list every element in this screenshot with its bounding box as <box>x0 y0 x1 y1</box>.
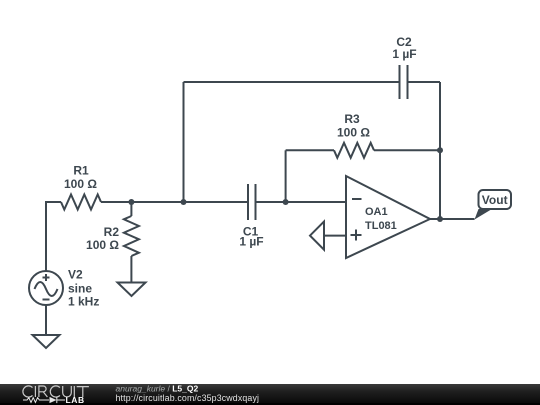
svg-text:100 Ω: 100 Ω <box>86 238 119 252</box>
wire: left branch horizontal from source top corner to R1 <box>46 202 61 271</box>
resistor R3 <box>334 143 374 158</box>
wire: C1 right plate to op-amp inverting input <box>256 201 347 203</box>
node: C2 branch junction <box>181 199 187 205</box>
wire: top feedback horizontal to C2 <box>184 81 400 83</box>
svg-text:LAB: LAB <box>66 395 85 405</box>
wire: R3 branch left vertical <box>285 150 287 202</box>
capacitor C1 <box>248 184 256 220</box>
wire: R2 top lead <box>130 202 132 216</box>
voltage source V2 (sine) <box>29 271 63 305</box>
node: R2 junction on input wire <box>128 199 134 205</box>
svg-text:TL081: TL081 <box>365 220 397 232</box>
op-amp minus symbol <box>352 198 362 200</box>
ground (below R2) <box>118 283 146 297</box>
wire: R1 right to C1 left plate <box>101 201 248 203</box>
resistor R2 <box>124 216 139 256</box>
svg-text:http://circuitlab.com/c35p3cwd: http://circuitlab.com/c35p3cwdxqayj <box>116 393 260 403</box>
resistor R1 <box>61 195 101 210</box>
svg-text:1 kHz: 1 kHz <box>68 295 99 309</box>
wire: V2 bottom to ground <box>45 305 47 335</box>
node: R3 branch junction <box>283 199 289 205</box>
svg-text:1 µF: 1 µF <box>239 235 263 249</box>
node: output junction <box>437 216 443 222</box>
CircuitLab logo squiggle (resistor + diode) <box>23 397 65 403</box>
svg-text:100 Ω: 100 Ω <box>337 126 370 140</box>
node: R3 right junction <box>437 147 443 153</box>
svg-text:100 Ω: 100 Ω <box>64 177 97 191</box>
wire: non-inverting input stub <box>324 235 346 237</box>
svg-text:OA1: OA1 <box>365 206 388 218</box>
svg-text:R1: R1 <box>73 164 89 178</box>
wire: R3 right lead to right vertical <box>374 149 440 151</box>
op-amp OA1 triangle <box>346 176 430 258</box>
wire: R2 bottom lead to ground <box>130 256 132 283</box>
wire: C2 feedback branch left vertical <box>183 82 185 202</box>
svg-text:sine: sine <box>68 282 92 296</box>
wire: R3 left lead <box>286 149 334 151</box>
wire: op-amp output to Vout <box>430 218 475 220</box>
svg-text:anurag_kurle / L5_Q2: anurag_kurle / L5_Q2 <box>116 384 199 394</box>
svg-text:1 µF: 1 µF <box>392 47 416 61</box>
wire: C2 right plate to right vertical <box>408 81 441 83</box>
op-amp plus symbol <box>351 230 362 241</box>
ground (op-amp non-inverting input, pointing left) <box>310 222 324 250</box>
footer bar <box>0 384 540 405</box>
svg-text:V2: V2 <box>68 268 83 282</box>
capacitor C2 <box>400 65 408 99</box>
ground (below V2) <box>33 335 60 348</box>
Vout flag <box>475 190 512 220</box>
svg-text:R3: R3 <box>344 112 360 126</box>
svg-text:R2: R2 <box>104 225 120 239</box>
svg-text:Vout: Vout <box>482 193 508 207</box>
CircuitLab logo text CIRCUIT (thin outline letters) <box>23 386 89 397</box>
wire: right feedback vertical down to output node <box>439 82 441 219</box>
